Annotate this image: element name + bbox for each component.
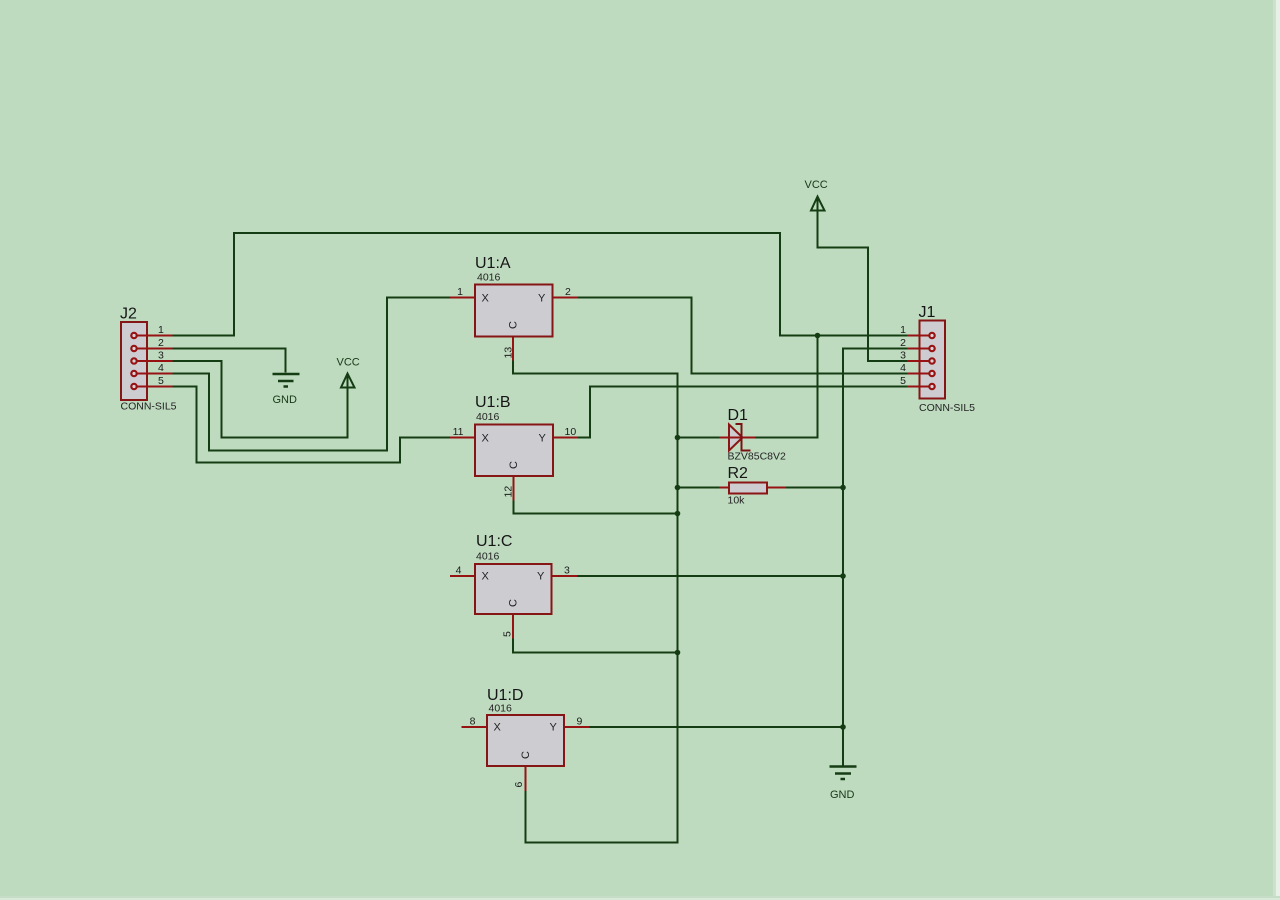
analog switch U1:B [450,394,578,501]
svg-text:4016: 4016 [476,411,500,423]
svg-text:VCC: VCC [805,179,828,191]
svg-text:U1:B: U1:B [475,394,511,411]
wire net J2.1 to J1.1 top route [173,233,908,336]
wire U1:B Y to J1.5 [578,387,907,438]
svg-text:3: 3 [564,565,570,577]
svg-text:5: 5 [158,375,164,387]
wire U1:C pin5 to trunk [513,639,678,653]
svg-text:12: 12 [503,486,515,498]
svg-text:C: C [508,461,520,469]
svg-text:11: 11 [453,426,464,438]
svg-text:1: 1 [457,286,463,298]
ground symbol left [273,374,300,406]
svg-text:3: 3 [158,350,164,362]
analog switch U1:A [450,255,578,361]
svg-text:X: X [494,722,502,734]
wire U1:D Y to GND rail [590,726,844,728]
svg-text:C: C [508,321,520,329]
svg-text:1: 1 [900,324,906,336]
svg-text:1: 1 [158,324,164,336]
svg-text:5: 5 [900,375,906,387]
svg-text:C: C [520,751,532,759]
svg-text:X: X [482,571,490,583]
power VCC left arrow [337,357,360,388]
wire J2.3 to VCC arrow [173,361,348,438]
svg-text:10: 10 [565,426,577,438]
svg-text:6: 6 [513,782,525,788]
junction dot trunk-R2 left [675,485,681,491]
svg-text:3: 3 [900,350,906,362]
junction dot U1:C Y on GND rail [840,573,846,579]
svg-text:10k: 10k [728,495,746,507]
svg-text:5: 5 [502,631,514,637]
wire U1:A pin13 trunk down to U1:D pin C [513,361,678,843]
wire J2.4 to U1:A pin X [173,298,451,451]
wire U1:B pin12 to trunk [514,501,678,514]
wire trunk to R2 left [678,487,720,489]
svg-text:13: 13 [503,347,515,359]
junction dot U1:C pin5 on trunk [675,650,681,656]
svg-text:Y: Y [539,433,547,445]
svg-text:4016: 4016 [476,551,500,563]
wire VCC right to J1.3 [818,198,908,362]
svg-text:Y: Y [550,722,558,734]
svg-text:8: 8 [470,716,476,728]
svg-text:U1:C: U1:C [476,533,512,550]
svg-text:GND: GND [830,789,855,801]
connector J2 [120,306,177,413]
svg-text:J1: J1 [919,304,936,321]
connector J1 [900,304,975,414]
svg-text:GND: GND [273,394,298,406]
wire U1:A Y to J1.4 [578,298,907,374]
svg-text:4: 4 [900,362,906,374]
junction dot R2 right on GND rail [840,485,846,491]
analog switch U1:C [450,533,577,639]
wire trunk to D1 anode [678,437,720,439]
svg-text:2: 2 [900,337,906,349]
junction dot trunk-D1 anode [675,435,681,441]
wire J1.2 to GND rail down to ground [843,349,907,766]
svg-text:4016: 4016 [477,272,501,284]
zener diode D1 [720,407,787,463]
svg-text:R2: R2 [728,465,749,482]
svg-text:4: 4 [158,362,164,374]
junction dot U1:D Y on GND rail [840,724,846,730]
resistor R2 [720,465,787,507]
svg-text:J2: J2 [120,306,137,323]
svg-text:VCC: VCC [337,357,360,369]
wire U1:C Y to GND rail [577,575,843,577]
junction dot at D1 branch on J1.1 wire [815,333,821,339]
svg-text:9: 9 [577,716,583,728]
svg-text:4016: 4016 [489,703,513,715]
svg-text:Y: Y [538,293,546,305]
analog switch U1:D [462,687,590,791]
svg-text:CONN-SIL5: CONN-SIL5 [919,402,975,414]
svg-text:4: 4 [456,565,462,577]
wire J2.5 to U1:B pin X [173,387,451,463]
wire D1 cathode branch to J1.1 net [755,336,818,438]
wire R2 right to GND rail [786,487,843,489]
svg-text:U1:A: U1:A [475,255,511,272]
svg-text:Y: Y [537,571,545,583]
svg-text:D1: D1 [728,407,749,424]
svg-text:U1:D: U1:D [487,687,523,704]
ground symbol right [830,767,857,802]
wire J2.2 to ground [173,349,286,373]
svg-text:BZV85C8V2: BZV85C8V2 [728,451,787,463]
svg-text:C: C [508,599,520,607]
svg-text:2: 2 [565,286,571,298]
junction dot U1:B pin12 on trunk [675,511,681,517]
svg-text:X: X [482,293,490,305]
svg-text:CONN-SIL5: CONN-SIL5 [121,401,177,413]
svg-text:2: 2 [158,337,164,349]
svg-text:X: X [482,433,490,445]
power VCC right arrow [805,179,828,211]
